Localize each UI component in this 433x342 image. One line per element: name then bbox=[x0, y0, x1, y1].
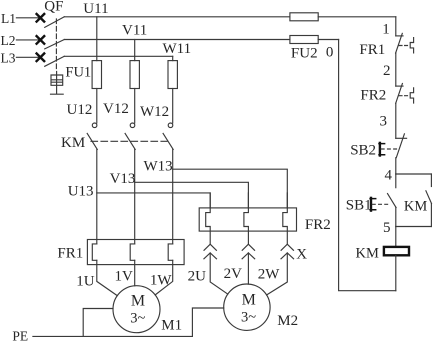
breaker contact X L1 bbox=[37, 14, 45, 22]
svg-text:KM: KM bbox=[61, 135, 85, 151]
wire 2V lead bbox=[247, 253, 249, 284]
KM main contact pole 2 bbox=[130, 123, 135, 128]
KM main contact pole 3 bbox=[168, 123, 173, 128]
wire W column fuse to KM bbox=[172, 89, 174, 124]
wire node 5 bar bbox=[396, 226, 432, 228]
FR1 heater pole 1 bbox=[92, 244, 97, 260]
fuse FU1 pole 3 bbox=[168, 61, 177, 89]
wire node 2 bbox=[395, 53, 397, 86]
wire row1 to FU2 bbox=[64, 16, 290, 18]
wire control right rail top bbox=[395, 17, 397, 36]
connector X pole 2 bbox=[242, 244, 255, 259]
svg-text:W11: W11 bbox=[163, 41, 192, 57]
FR2 heater pole 1 bbox=[206, 193, 211, 244]
svg-text:M: M bbox=[131, 293, 145, 310]
svg-text:5: 5 bbox=[383, 220, 391, 236]
wire row3 bbox=[64, 55, 172, 57]
wire 1U lead bbox=[97, 260, 118, 295]
svg-text:1W: 1W bbox=[150, 272, 173, 288]
thermal relay FR1 box bbox=[87, 240, 184, 265]
svg-text:U11: U11 bbox=[83, 1, 108, 17]
wire W column KM to FR1 bbox=[172, 150, 174, 244]
svg-text:SB1: SB1 bbox=[346, 197, 372, 213]
wire 1W lead bbox=[155, 260, 173, 295]
wire U column KM to FR1 bbox=[96, 150, 98, 244]
svg-text:1V: 1V bbox=[115, 269, 134, 285]
svg-text:3: 3 bbox=[380, 114, 388, 130]
wire U column upper bbox=[96, 17, 98, 61]
svg-text:FR1: FR1 bbox=[57, 245, 83, 261]
svg-text:M2: M2 bbox=[277, 313, 298, 329]
svg-text:FU2: FU2 bbox=[291, 46, 318, 62]
svg-text:1: 1 bbox=[382, 22, 390, 38]
svg-text:U13: U13 bbox=[68, 184, 94, 200]
QF operating mechanism box bbox=[51, 72, 64, 95]
wire to coil bbox=[395, 227, 397, 247]
svg-text:X: X bbox=[296, 247, 307, 263]
wire M2 frame to PE bbox=[192, 308, 223, 336]
svg-text:M1: M1 bbox=[161, 317, 182, 333]
svg-text:FR2: FR2 bbox=[305, 217, 331, 233]
svg-text:L2: L2 bbox=[1, 33, 16, 48]
wire control left rail bbox=[339, 40, 396, 291]
FR1 heater pole 2 bbox=[130, 244, 135, 260]
wire W column upper bbox=[172, 56, 174, 60]
wire M1 frame to PE bbox=[83, 309, 113, 337]
svg-text:3~: 3~ bbox=[241, 309, 256, 325]
wire V13 tap bbox=[135, 182, 249, 208]
wire 2U lead bbox=[210, 253, 228, 294]
wire node 3 bbox=[395, 103, 397, 138]
thermal relay FR2 box bbox=[199, 208, 296, 231]
motor M1 bbox=[113, 286, 160, 333]
wire 1V lead bbox=[134, 260, 136, 286]
svg-text:KM: KM bbox=[356, 246, 379, 262]
wire V column fuse to KM bbox=[134, 89, 136, 124]
wire V column upper bbox=[134, 40, 136, 61]
breaker contact X L3 bbox=[37, 54, 45, 62]
fuse FU1 pole 1 bbox=[92, 61, 101, 89]
wire PE bus bbox=[33, 335, 193, 337]
wire L1 input bbox=[16, 17, 40, 19]
wire row1 FU2 to rail bbox=[318, 16, 396, 18]
svg-text:FR2: FR2 bbox=[360, 88, 386, 104]
svg-text:QF: QF bbox=[44, 0, 63, 14]
svg-text:FU1: FU1 bbox=[65, 65, 91, 81]
motor M2 bbox=[224, 284, 270, 330]
QF blade pole 1 bbox=[45, 17, 65, 28]
svg-text:2V: 2V bbox=[224, 266, 243, 282]
wire U13 tap bbox=[97, 193, 210, 208]
QF blade pole 3 bbox=[45, 56, 65, 66]
fuse FU1 pole 2 bbox=[130, 61, 139, 89]
svg-text:U12: U12 bbox=[67, 102, 93, 118]
wire L2 input bbox=[16, 39, 40, 41]
wire V column KM to FR1 bbox=[134, 150, 136, 244]
fuse FU2 pole 2 bbox=[290, 36, 318, 44]
svg-text:L3: L3 bbox=[1, 50, 16, 65]
svg-text:0: 0 bbox=[326, 45, 334, 61]
svg-text:1U: 1U bbox=[76, 274, 95, 290]
QF linkage dashed bbox=[55, 19, 57, 72]
svg-text:W13: W13 bbox=[144, 158, 173, 174]
svg-text:2W: 2W bbox=[258, 266, 281, 282]
wire node 4 bbox=[395, 158, 397, 174]
wire 2W lead bbox=[267, 253, 288, 295]
wire row2 FU2 to rail 0 bbox=[318, 39, 338, 41]
wire row2 to FU2 bbox=[64, 39, 290, 41]
wire U column fuse to KM bbox=[96, 89, 98, 124]
connector X pole 3 bbox=[281, 244, 294, 259]
svg-text:V11: V11 bbox=[122, 23, 147, 39]
svg-text:3~: 3~ bbox=[130, 310, 145, 326]
KM main contact pole 1 bbox=[92, 123, 97, 128]
FR2 heater pole 2 bbox=[244, 193, 249, 244]
wire L3 input bbox=[16, 56, 40, 58]
svg-text:2U: 2U bbox=[188, 269, 207, 285]
svg-text:V13: V13 bbox=[110, 171, 136, 187]
svg-text:W12: W12 bbox=[140, 104, 169, 120]
breaker contact X L2 bbox=[37, 36, 45, 44]
connector X pole 1 bbox=[204, 244, 217, 259]
QF blade pole 2 bbox=[45, 40, 65, 49]
wire W13 tap bbox=[173, 169, 288, 208]
svg-text:SB2: SB2 bbox=[350, 143, 376, 159]
svg-text:FR1: FR1 bbox=[359, 42, 385, 58]
svg-text:4: 4 bbox=[385, 167, 393, 183]
svg-text:2: 2 bbox=[383, 63, 391, 79]
FR2 heater pole 3 bbox=[283, 193, 288, 244]
svg-text:KM: KM bbox=[404, 198, 427, 214]
KM linkage dashed bbox=[91, 140, 167, 142]
svg-text:L1: L1 bbox=[1, 11, 16, 26]
svg-text:PE: PE bbox=[12, 328, 28, 342]
svg-text:M: M bbox=[242, 292, 256, 309]
FR1 heater pole 3 bbox=[168, 244, 173, 260]
wire node4 branch bar bbox=[396, 173, 432, 175]
fuse FU2 pole 1 bbox=[290, 13, 318, 21]
svg-text:V12: V12 bbox=[103, 101, 129, 117]
wire coil to bottom bbox=[395, 256, 397, 291]
